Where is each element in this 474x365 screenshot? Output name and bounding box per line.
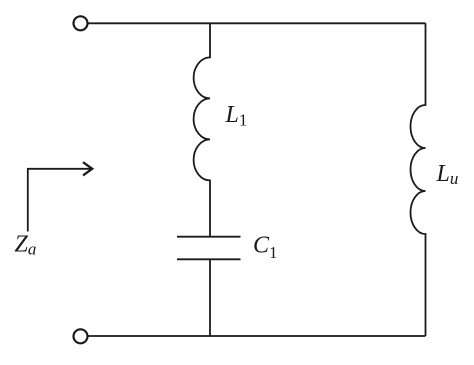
svg-text:Lu: Lu xyxy=(436,161,459,188)
svg-text:L1: L1 xyxy=(225,102,248,130)
svg-text:C1: C1 xyxy=(253,232,278,261)
svg-text:Za: Za xyxy=(15,232,37,259)
